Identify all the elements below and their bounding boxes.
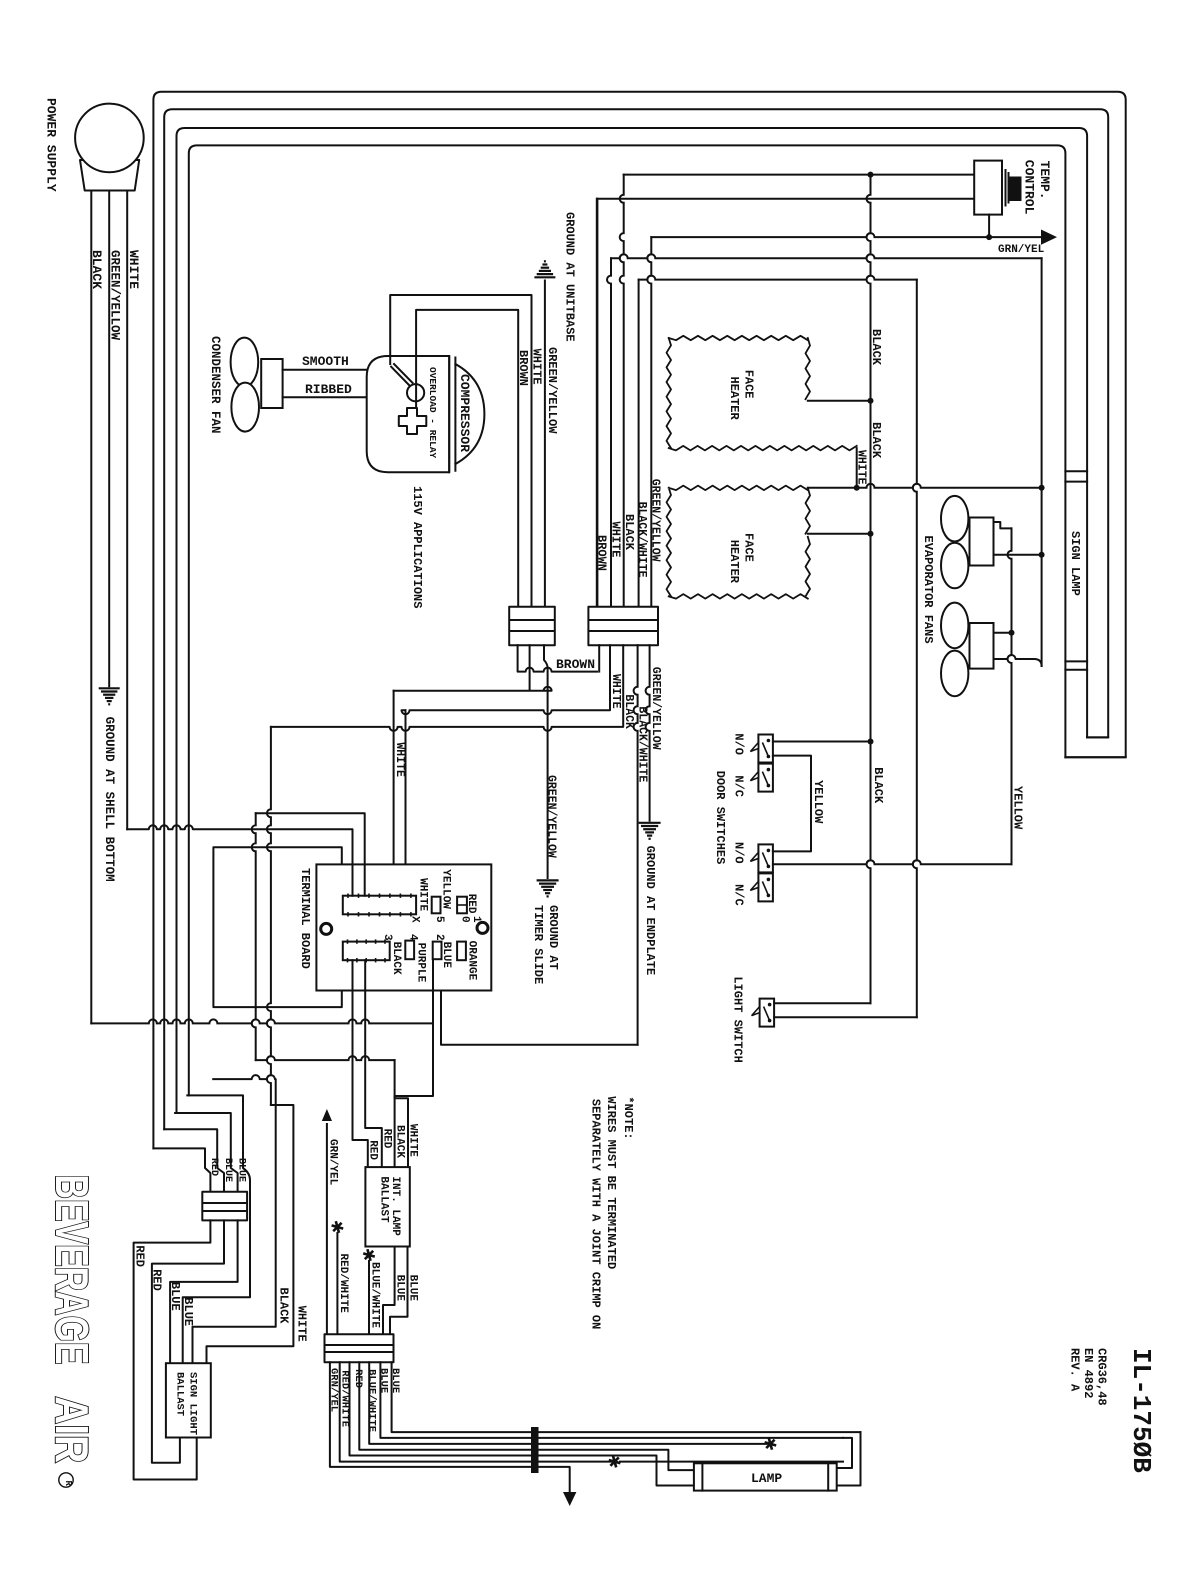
svg-text:X: X (409, 916, 421, 923)
face heater 1 tap wire (808, 400, 871, 402)
wire white below block1 (394, 645, 552, 691)
wire black below block2 (271, 645, 623, 731)
wire ballast bottom blue1 (383, 1247, 395, 1335)
condenser fan blade 1 (231, 338, 259, 387)
wire cascade rail1 (153, 1148, 210, 1191)
svg-text:HEATER: HEATER (727, 540, 741, 584)
connector block 4 (325, 1334, 394, 1362)
svg-text:YELLOW: YELLOW (1011, 786, 1025, 830)
svg-text:R: R (63, 1480, 73, 1486)
svg-text:FACE: FACE (742, 533, 756, 562)
svg-text:BLUE: BLUE (394, 1275, 406, 1302)
wire heater2 top to right bus (808, 484, 1042, 488)
joint crimp (533, 1429, 537, 1471)
svg-text:GREEN/YELLOW: GREEN/YELLOW (648, 479, 661, 562)
wire bundle line7 (392, 1362, 861, 1432)
compressor relay lever (391, 364, 412, 385)
terminal pad 3r (457, 942, 466, 961)
compressor overload cross (399, 408, 427, 434)
junction dot fan2 upper (1009, 630, 1015, 636)
wire rail6 to intlamp white (395, 1060, 408, 1167)
wire light switch bottom (774, 1016, 917, 1018)
wire black bus vertical (867, 175, 871, 1004)
junction dot black bus (868, 172, 874, 178)
ground at shell bottom symbol (99, 687, 120, 689)
svg-text:REV. A: REV. A (1068, 1348, 1082, 1392)
wire brown bundle2 (596, 199, 598, 607)
wire bundle line6 (380, 1362, 843, 1438)
wire board lower wire 2 (365, 960, 382, 1167)
svg-text:RED: RED (352, 1369, 364, 1388)
connector block 3 (202, 1192, 247, 1221)
wire bundle line2b (620, 1432, 861, 1485)
evaporator fan1 blade 2 (941, 543, 968, 589)
wire white below block2 (402, 645, 611, 714)
svg-text:WHITE: WHITE (609, 522, 623, 558)
svg-text:IL-175ØB: IL-175ØB (1126, 1348, 1156, 1473)
wire green/yellow to ground at unitbase (544, 281, 546, 607)
svg-text:WHITE: WHITE (393, 742, 406, 777)
svg-text:BLUE: BLUE (222, 1158, 233, 1182)
svg-text:*NOTE:: *NOTE: (621, 1096, 635, 1139)
svg-text:RED: RED (150, 1269, 164, 1291)
wire enclosure to cascade7 (267, 727, 271, 1105)
wire white heater1 drop (856, 448, 858, 488)
svg-text:GROUND AT UNITBASE: GROUND AT UNITBASE (563, 212, 577, 342)
wire border rail 1 outer (top and sides) (153, 92, 1125, 1149)
wire bus line2 to temp control (597, 198, 974, 200)
svg-text:LIGHT SWITCH: LIGHT SWITCH (731, 976, 745, 1062)
wire cascade rail6 lower (256, 1056, 395, 1060)
svg-text:RED/WHITE: RED/WHITE (337, 1254, 349, 1314)
terminal pad 0-1 (457, 897, 467, 914)
connector block 1 (509, 607, 555, 646)
svg-text:BLACK/WHITE: BLACK/WHITE (635, 502, 648, 578)
ground at endplate symbol (639, 822, 661, 824)
svg-text:OVERLOAD - RELAY: OVERLOAD - RELAY (427, 367, 438, 459)
wire fans supply vertical (913, 280, 917, 1018)
svg-text:5: 5 (433, 916, 445, 923)
wire fan1 lower stub (994, 554, 1042, 556)
temp control bottom stub (988, 215, 990, 238)
terminal board screw left (321, 923, 332, 934)
svg-text:WHITE: WHITE (126, 250, 141, 289)
terminal board enclosure (213, 847, 341, 1007)
wire black power to board area (91, 1019, 433, 1023)
wire bus line2 left drop (596, 199, 598, 607)
svg-text:BEVERAGE: BEVERAGE (46, 1175, 98, 1365)
logo registered mark (59, 1473, 73, 1487)
svg-text:RED: RED (367, 1140, 379, 1160)
svg-text:GROUND AT: GROUND AT (546, 905, 560, 970)
svg-text:WHITE: WHITE (417, 878, 429, 911)
power supply plug circle (75, 104, 144, 173)
wire red loop 1 (134, 1220, 211, 1479)
evaporator fan1 motor (970, 518, 994, 566)
terminal strip lower (343, 942, 390, 961)
wire overload to brown lead (416, 310, 518, 607)
wire green/yellow to endplate ground (646, 645, 650, 821)
svg-text:WHITE: WHITE (295, 1306, 309, 1342)
wire bus line1 left drop (620, 175, 624, 607)
wire grn/yel left drop (647, 237, 651, 607)
svg-text:BLACK: BLACK (390, 942, 402, 975)
svg-text:GROUND AT SHELL BOTTOM: GROUND AT SHELL BOTTOM (102, 717, 116, 882)
wire fan interconnect vertical (1008, 528, 1012, 864)
svg-text:POWER SUPPLY: POWER SUPPLY (44, 98, 59, 192)
wire board pad2 down (395, 959, 433, 1167)
wire door switch2 to fans (773, 860, 1012, 864)
svg-text:BLUE: BLUE (168, 1282, 182, 1311)
terminal pad 4 (405, 941, 414, 960)
svg-text:WHITE: WHITE (609, 674, 622, 709)
svg-text:GRN/YEL: GRN/YEL (998, 244, 1045, 256)
power supply plug body (80, 160, 139, 191)
junction dot temp grn/yel (986, 234, 992, 240)
wire cascade rail2 (164, 1129, 224, 1192)
svg-text:GREEN/YELLOW: GREEN/YELLOW (545, 347, 559, 434)
wire brown below block1 (518, 645, 597, 671)
svg-text:FACE: FACE (742, 370, 756, 399)
face heater 1 outline (667, 336, 857, 451)
svg-text:BLUE: BLUE (181, 1297, 195, 1326)
svg-text:COMPRESSOR: COMPRESSOR (457, 374, 472, 452)
wire light switch top (774, 1002, 870, 1004)
asterisk bundle right (765, 1438, 777, 1450)
svg-text:WHITE: WHITE (407, 1124, 419, 1157)
wire relay to white lead (390, 295, 531, 607)
condenser fan motor (261, 359, 282, 408)
svg-text:BLUE/WHITE: BLUE/WHITE (369, 1262, 381, 1328)
wire blue drop (170, 1220, 238, 1363)
svg-text:N/O: N/O (732, 733, 746, 755)
asterisk red/white (332, 1221, 344, 1233)
door switch 2 N/O (758, 844, 773, 872)
wire ballast bottom blue2 (390, 1247, 408, 1335)
svg-text:EVAPORATOR FANS: EVAPORATOR FANS (921, 536, 935, 644)
temp control knob (1009, 177, 1022, 202)
wire cascade rail3 (175, 1113, 238, 1192)
svg-text:YELLOW: YELLOW (811, 780, 825, 824)
junction dot heater1 tap (868, 398, 874, 404)
compressor body (367, 356, 450, 472)
wire fan2 upper stub (994, 632, 1012, 634)
wire black power lead (90, 191, 92, 1024)
wire green/yellow power lead (108, 191, 110, 687)
svg-text:BLUE: BLUE (236, 1158, 247, 1182)
wire red/white drop (336, 1233, 338, 1334)
wire door switch1 to black bus (773, 741, 871, 743)
down arrowhead (563, 1492, 576, 1506)
temp control box (974, 161, 1002, 215)
sign light ballast box (166, 1363, 211, 1437)
ground at timer slide symbol (537, 879, 559, 881)
wire white pair right (405, 710, 407, 896)
wire border rail 3 (top, right side becomes sign lamp tube right) (177, 128, 1088, 1113)
svg-text:N/O: N/O (732, 842, 746, 864)
svg-text:TEMP.: TEMP. (1037, 161, 1052, 200)
svg-text:RIBBED: RIBBED (305, 382, 352, 397)
junction dot white heater1 (854, 485, 860, 491)
svg-text:GREEN/YELLOW: GREEN/YELLOW (108, 250, 122, 341)
asterisk bundle left (609, 1456, 621, 1468)
svg-text:BLUE: BLUE (378, 1368, 390, 1393)
wire inner bus left drop (607, 258, 611, 606)
svg-text:BROWN: BROWN (516, 350, 530, 386)
svg-text:BLUE/WHITE: BLUE/WHITE (366, 1369, 378, 1432)
svg-text:BALLAST: BALLAST (378, 1176, 390, 1223)
grn/yel arrowhead (1041, 230, 1057, 245)
svg-text:WHITE: WHITE (855, 450, 868, 485)
connector block 2 (588, 607, 658, 646)
wire bundle grn/yel to ground arrow (330, 1362, 570, 1494)
wire inner bus line (611, 254, 1042, 258)
svg-text:RED: RED (208, 1158, 219, 1176)
wire ribbed (fan to relay) (283, 396, 408, 398)
svg-text:BLACK/WHITE: BLACK/WHITE (635, 706, 648, 782)
sign lamp tube bottom cap (1065, 661, 1087, 669)
door switch 1 N/C (758, 764, 773, 792)
svg-text:BALLAST: BALLAST (174, 1372, 186, 1416)
svg-text:BROWN: BROWN (556, 657, 595, 672)
svg-text:RED: RED (465, 894, 477, 914)
wire white power lead (126, 191, 128, 830)
svg-text:GRN/YEL: GRN/YEL (327, 1139, 339, 1186)
terminal board plate (316, 864, 491, 990)
light switch (760, 999, 775, 1027)
svg-text:INT. LAMP: INT. LAMP (389, 1176, 401, 1236)
door switch 1 N/O (758, 735, 773, 763)
wire sign lamp bottom inner (1087, 736, 1108, 738)
compressor dome (455, 364, 484, 464)
terminal pad 2 (433, 942, 442, 960)
wire green/yellow to timer slide ground (544, 645, 548, 878)
terminal strip upper (343, 896, 416, 915)
svg-text:2: 2 (433, 934, 445, 941)
svg-text:BLUE: BLUE (440, 942, 452, 969)
svg-text:GREEN/YELLOW: GREEN/YELLOW (649, 667, 662, 750)
svg-text:BLACK: BLACK (871, 767, 885, 804)
svg-text:BROWN: BROWN (595, 535, 609, 571)
wire cascade rail4 (183, 1095, 250, 1363)
svg-text:BLUE: BLUE (407, 1275, 419, 1302)
svg-text:TERMINAL BOARD: TERMINAL BOARD (298, 868, 312, 969)
svg-text:YELLOW: YELLOW (440, 869, 452, 909)
wire cascade rail6 vertical (252, 813, 256, 1060)
wire bundle line3 (350, 1362, 694, 1485)
svg-text:RED: RED (381, 1129, 393, 1149)
wire bundle line2 (340, 1362, 615, 1461)
svg-text:ORANGE: ORANGE (466, 941, 478, 981)
svg-text:AIR: AIR (46, 1396, 98, 1463)
wire bus line1 to temp control (624, 174, 975, 176)
wire bundle line5 (369, 1362, 770, 1444)
wire border rail 2 (top and sides) (164, 109, 1108, 1129)
svg-text:1: 1 (470, 916, 482, 923)
svg-text:RED: RED (133, 1245, 147, 1267)
svg-text:DOOR SWITCHES: DOOR SWITCHES (713, 771, 727, 865)
wire blue/white drop (368, 1261, 370, 1334)
wire grn/yel stub with up arrow (326, 1124, 328, 1334)
svg-text:PURPLE: PURPLE (415, 943, 427, 983)
svg-text:GREEN/YELLOW: GREEN/YELLOW (545, 775, 558, 858)
int lamp ballast box (365, 1167, 409, 1246)
wire cascade rail6 (board to int lamp ballast) (256, 813, 365, 896)
svg-text:BLACK: BLACK (622, 694, 635, 729)
wire black/white return to board (441, 991, 638, 1045)
face heater 2 outline (667, 486, 811, 599)
wire black/white below block2 (634, 645, 638, 1045)
svg-text:SIGN LIGHT: SIGN LIGHT (187, 1372, 199, 1435)
svg-text:115V APPLICATIONS: 115V APPLICATIONS (410, 486, 424, 608)
svg-text:WIRES MUST BE TERMINATED: WIRES MUST BE TERMINATED (604, 1096, 618, 1269)
wire brown below block2 (598, 645, 600, 671)
sign lamp tube top cap (1065, 471, 1087, 481)
terminal pad 5 (432, 897, 441, 914)
wire smooth (fan to relay) (283, 369, 392, 371)
lamp end caps (702, 1463, 828, 1490)
wire white power to board (127, 825, 352, 895)
svg-text:BLACK: BLACK (622, 514, 636, 551)
door switch 2 N/C (758, 873, 773, 901)
wire fans bus line (639, 276, 917, 280)
wire cascade7 to sign ballast white (207, 1105, 294, 1363)
wire red loop 2 (152, 1220, 224, 1462)
svg-text:BLACK: BLACK (394, 1125, 406, 1158)
svg-text:N/C: N/C (732, 884, 746, 906)
svg-text:CONTROL: CONTROL (1022, 160, 1037, 215)
compressor relay circle (407, 384, 424, 401)
svg-text:SIGN LAMP: SIGN LAMP (1068, 531, 1082, 596)
face heater 2 tap wire (808, 533, 871, 535)
svg-text:LAMP: LAMP (751, 1471, 782, 1486)
wire sign lamp bottom outer (1065, 756, 1125, 758)
wire cascade rail5 (193, 1075, 276, 1363)
wire border rail 4 (top, right side becomes sign lamp tube left) (189, 145, 1066, 1095)
wire white pair left (393, 691, 395, 896)
evaporator fan2 motor (970, 623, 994, 669)
wire fan2 lower stub (994, 655, 1042, 666)
temp control stem lines (1002, 170, 1009, 206)
svg-text:GROUND AT ENDPLATE: GROUND AT ENDPLATE (643, 846, 657, 976)
svg-text:N/C: N/C (732, 775, 746, 797)
svg-text:HEATER: HEATER (727, 377, 741, 421)
ground at unitbase symbol (544, 260, 546, 262)
terminal board screw right (477, 922, 488, 933)
svg-text:4: 4 (407, 934, 419, 941)
svg-text:SEPARATELY WITH A JOINT CRIMP: SEPARATELY WITH A JOINT CRIMP ON (589, 1099, 603, 1329)
junction dot door switch1 (868, 739, 874, 745)
wire grn/yel line from temp control (651, 233, 1041, 237)
asterisk blue/white (363, 1249, 375, 1261)
svg-text:EN 4892: EN 4892 (1081, 1348, 1095, 1398)
wire right inner bus vertical (1041, 258, 1043, 666)
svg-text:WHITE: WHITE (530, 349, 544, 385)
grn/yel up arrowhead (322, 1109, 332, 1121)
svg-text:CONDENSER FAN: CONDENSER FAN (208, 336, 222, 434)
evaporator fan2 blade 1 (941, 603, 968, 649)
svg-text:0: 0 (459, 916, 471, 923)
junction dot fan1 lower bus (1039, 552, 1045, 558)
svg-text:TIMER SLIDE: TIMER SLIDE (531, 905, 545, 984)
wire fan1 upper stub (994, 522, 1012, 528)
junction dot heater wire right bus (1039, 485, 1045, 491)
evaporator fan1 blade 1 (941, 496, 968, 542)
wire door switch yellow jumper (773, 756, 811, 852)
evaporator fan2 blade 2 (941, 651, 968, 697)
svg-text:BLACK: BLACK (89, 250, 104, 289)
svg-text:CRG36,48: CRG36,48 (1095, 1348, 1109, 1406)
svg-text:BLACK: BLACK (277, 1288, 291, 1325)
compressor flange lines (449, 356, 455, 472)
junction dot heater2 tap (868, 531, 874, 537)
lamp outer rect (694, 1463, 837, 1490)
svg-text:SMOOTH: SMOOTH (302, 354, 349, 369)
wire board lower wire 1 (353, 960, 368, 1167)
condenser fan blade 2 (231, 383, 259, 432)
wire fans bus left drop (638, 280, 640, 607)
svg-text:3: 3 (381, 934, 393, 941)
wire bundle line4 (359, 1362, 694, 1470)
